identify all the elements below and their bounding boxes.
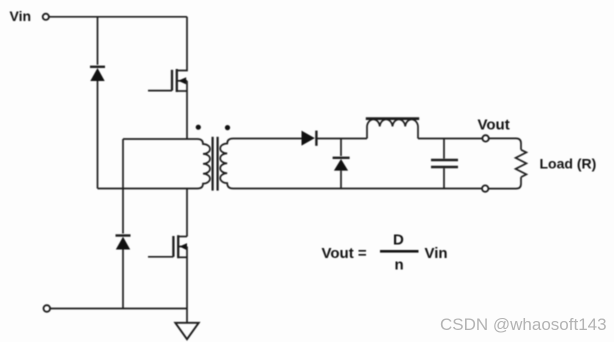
wire Q2 source to bottom rail [186, 247, 188, 309]
capacitor C1 [431, 139, 458, 189]
wire secondary top lead to D3 [233, 138, 302, 140]
wire clamp leg lower (D1 anode to primary bottom) [97, 81, 99, 189]
svg-text:CSDN @whaosoft143: CSDN @whaosoft143 [440, 315, 607, 334]
wire top rail Vin to Q1 drain [49, 16, 187, 18]
wire Q1 source to primary top [186, 81, 188, 139]
wire load bottom to output return terminal [488, 177, 521, 189]
output return terminal [482, 185, 488, 191]
transformer T1 secondary winding [220, 139, 233, 189]
polarity dot secondary [225, 125, 230, 130]
wire D3 cathode to inductor [316, 138, 367, 140]
diode D1 (clamp, cathode up) [90, 67, 105, 81]
diode D4 (freewheel, cathode up) [333, 158, 350, 171]
wire bottom rail [50, 308, 187, 310]
wire D4 cathode stem [340, 139, 342, 157]
wire D2 anode to bottom rail [122, 250, 124, 309]
transformer T1 primary winding [98, 139, 211, 189]
transistor Q1 (high-side MOSFET) [148, 17, 187, 92]
polarity dot primary [196, 125, 201, 130]
wire primary bottom to Q2 drain [186, 189, 188, 237]
transistor Q2 (low-side MOSFET) [148, 235, 187, 258]
input return terminal [44, 305, 51, 312]
wire clamp leg upper (to D1 cathode) [97, 17, 99, 65]
ground [175, 309, 198, 340]
output terminal Vout [482, 135, 488, 141]
inductor L1 [366, 119, 419, 139]
wire Vout terminal to load [489, 138, 521, 149]
resistor Load (R) [516, 150, 597, 177]
wire secondary bottom lead [233, 188, 482, 190]
input terminal Vin [43, 14, 49, 20]
wire inductor to Vout terminal [418, 138, 482, 140]
diode D3 (series rectifier, pointing right) [302, 131, 317, 146]
transformer T1 core [213, 137, 218, 191]
wire clamp leg upper (primary top to D2 cathode) [122, 139, 124, 234]
equation Vout = D/n Vin [322, 232, 448, 274]
diode D2 (clamp, cathode up) [116, 236, 131, 250]
wire D4 anode to bottom rail [340, 171, 342, 189]
